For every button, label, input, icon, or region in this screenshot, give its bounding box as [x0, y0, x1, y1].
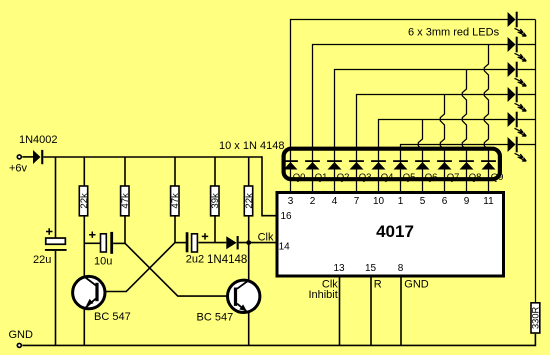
IC U1 4017 body: [277, 193, 504, 277]
wire +6V supply rail: [43, 156, 262, 158]
svg-text:3: 3: [288, 196, 294, 207]
wire Q5 to LED6: [401, 145, 509, 152]
diode bank D3-D12 10 x 1N4148: [283, 160, 496, 169]
svg-text:6 x 3mm red LEDs: 6 x 3mm red LEDs: [408, 27, 500, 39]
resistor R4 39k: [210, 157, 221, 243]
resistor R5 22k: [244, 157, 255, 243]
svg-text:39k: 39k: [210, 193, 221, 209]
wire Q2 to LED3: [335, 70, 509, 152]
wire C3 to D2: [198, 242, 226, 244]
wire Q0 to LED1: [291, 20, 509, 152]
transistor Q1 BC 547: [73, 276, 131, 323]
svg-text:4017: 4017: [376, 222, 414, 241]
wire LED cathode bus: [535, 20, 537, 303]
wire node to C3: [175, 242, 186, 244]
svg-text:13: 13: [333, 263, 345, 274]
wire pin 15 to ground: [370, 277, 372, 345]
svg-text:4: 4: [332, 196, 338, 207]
wire Q1 emitter to ground: [83, 309, 85, 346]
svg-text:47k: 47k: [120, 193, 131, 209]
capacitor C3 2u2: [186, 232, 209, 265]
wire Q3 to LED4: [357, 95, 509, 152]
svg-text:R: R: [374, 279, 382, 291]
svg-text:11: 11: [483, 196, 494, 207]
wire terminal to D1: [22, 156, 33, 158]
wire Q9 to LED2: [484, 45, 488, 152]
svg-text:GND: GND: [404, 279, 429, 291]
svg-text:2u2: 2u2: [186, 253, 204, 265]
svg-text:+6v: +6v: [9, 163, 28, 175]
svg-text:1N4002: 1N4002: [19, 134, 58, 146]
svg-text:BC 547: BC 547: [94, 311, 131, 323]
terminal +6v: [9, 155, 28, 175]
wire Q1 to LED2: [313, 45, 509, 152]
terminal GND: [9, 329, 34, 347]
diode D2 1N4148: [207, 236, 247, 266]
svg-text:Inhibit: Inhibit: [308, 289, 337, 301]
svg-text:6: 6: [442, 196, 448, 207]
svg-text:22k: 22k: [79, 193, 90, 209]
LED6: [508, 137, 536, 161]
wire cross-coupling from Q1 base: [99, 243, 175, 292]
capacitor C2 10u: [89, 232, 113, 268]
diode bank border: [284, 149, 500, 180]
svg-text:2: 2: [310, 196, 316, 207]
svg-text:16: 16: [281, 211, 293, 222]
resistor R1 22k: [79, 157, 90, 277]
diode D1 1N4002: [19, 134, 58, 164]
LED5: [508, 112, 536, 136]
svg-text:10: 10: [373, 196, 385, 207]
wire Q2 emitter to ground: [248, 313, 250, 345]
junction clock node: [246, 240, 251, 245]
svg-text:BC 547: BC 547: [197, 312, 234, 324]
wire C2 to node B: [113, 242, 125, 244]
wire diode bank pins to IC: [291, 151, 489, 192]
svg-text:10u: 10u: [94, 256, 112, 268]
LED3: [508, 62, 536, 86]
label Clk Inhibit: [308, 279, 338, 301]
svg-text:GND: GND: [9, 329, 34, 341]
svg-text:1N4148: 1N4148: [207, 254, 247, 266]
svg-text:22u: 22u: [33, 254, 51, 266]
svg-text:7: 7: [354, 196, 360, 207]
svg-text:1: 1: [398, 196, 404, 207]
wire Q8 to LED3: [462, 70, 466, 152]
svg-text:15: 15: [365, 263, 377, 274]
LED2: [508, 37, 536, 61]
wire pin 8 to ground: [400, 277, 402, 345]
resistor R6 330R: [531, 303, 541, 333]
svg-text:22k: 22k: [244, 193, 255, 209]
svg-text:330R: 330R: [531, 307, 541, 330]
wire ground rail: [22, 334, 535, 346]
LED1: [508, 12, 536, 36]
wire Q7 to LED4: [440, 95, 444, 152]
svg-text:Clk: Clk: [258, 232, 274, 244]
resistor R3 47k: [170, 157, 181, 243]
svg-text:10 x 1N 4148: 10 x 1N 4148: [219, 140, 284, 152]
svg-text:9: 9: [464, 196, 470, 207]
resistor R2 47k: [120, 157, 131, 243]
wire Q6 to LED5: [418, 120, 422, 152]
transistor Q2 BC 547: [197, 280, 260, 323]
LED4: [508, 87, 536, 111]
svg-text:8: 8: [398, 263, 404, 274]
svg-text:14: 14: [279, 242, 291, 253]
svg-text:47k: 47k: [170, 193, 181, 209]
wire cross-coupling to Q2 base: [125, 243, 234, 296]
wire Q4 to LED5: [379, 120, 509, 152]
wire clock node to Q2 collector: [248, 243, 250, 281]
wire R1 node to C2: [84, 242, 100, 244]
wire clock node to pin 14: [239, 242, 277, 244]
capacitor C1 22u: [33, 157, 67, 345]
svg-text:5: 5: [420, 196, 426, 207]
wire pin 13 to ground: [339, 277, 341, 345]
wire rail to pin 16: [262, 156, 277, 216]
